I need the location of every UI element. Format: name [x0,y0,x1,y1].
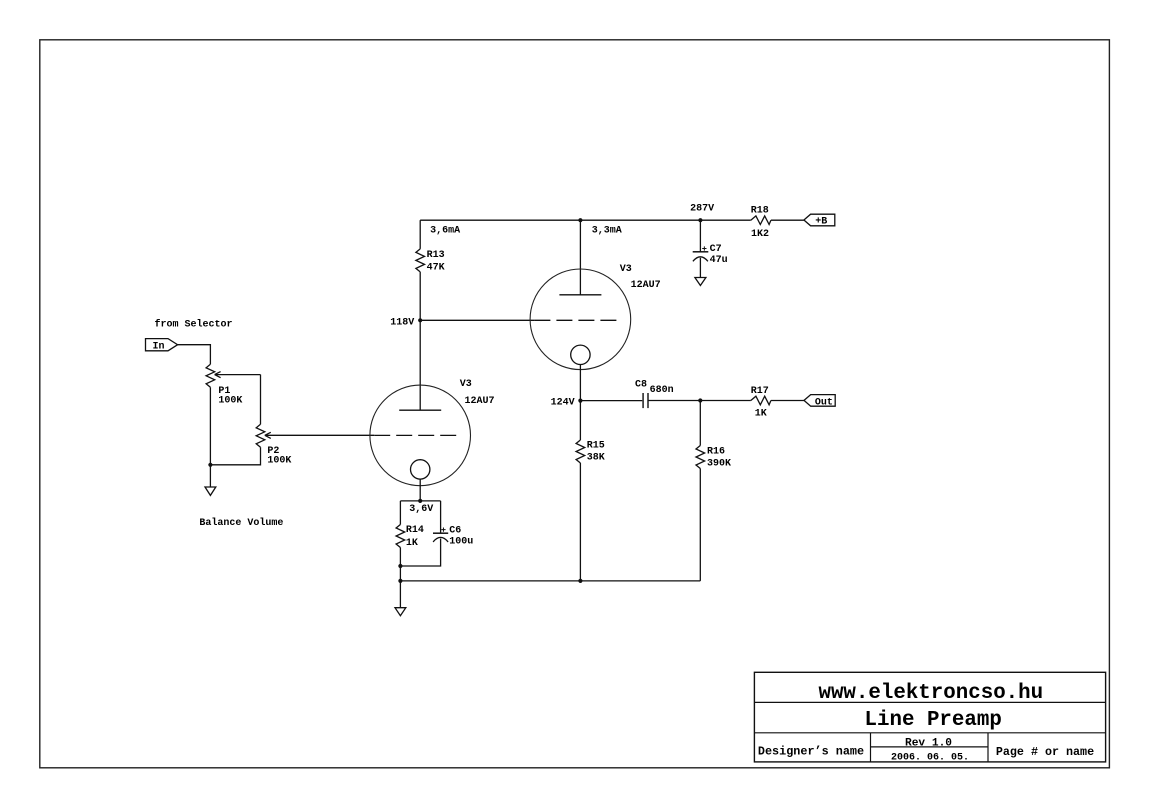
svg-text:12AU7: 12AU7 [465,396,495,407]
wire V3a cathode lead [419,479,421,501]
title block column line 1 [870,733,872,762]
wire junction to ground [209,465,211,487]
svg-text:Page # or name: Page # or name [996,745,1094,759]
node R14-C6 bottom [398,564,402,568]
svg-text:2006. 06. 05.: 2006. 06. 05. [891,752,969,763]
node bottom rail left [398,579,402,583]
svg-text:100u: 100u [449,537,473,548]
node 124V [578,399,582,403]
wire 118V to tube V3b grid [420,319,534,321]
svg-text:680n: 680n [650,385,674,396]
svg-text:287V: 287V [690,204,714,215]
tube V3b cathode [571,345,590,364]
wire R18 to +B [771,219,804,221]
svg-text:12AU7: 12AU7 [631,280,661,291]
svg-text:www.elektroncso.hu: www.elektroncso.hu [818,682,1043,705]
wire In to P1 [178,345,211,365]
svg-text:124V: 124V [551,398,575,409]
svg-text:1K: 1K [755,409,767,420]
capacitor C7 [693,244,728,266]
svg-text:C8: C8 [635,379,647,390]
wire to C6 top [440,501,442,533]
svg-text:1K2: 1K2 [751,229,769,240]
resistor R17 [751,386,771,420]
connector In [146,339,178,353]
wire C7 to ground [699,258,701,278]
svg-text:Out: Out [815,397,833,408]
svg-text:47K: 47K [427,263,445,274]
wire to R14 top [399,501,401,525]
title block divider 1 [754,701,1105,703]
svg-text:38K: 38K [587,453,605,464]
tube V3b grid [534,319,616,321]
tube V3a envelope [370,385,471,486]
wire P1 wiper down to P2 [260,375,262,425]
svg-text:390K: 390K [707,459,731,470]
svg-text:Balance Volume: Balance Volume [199,517,283,529]
node out junction [698,398,702,402]
tube V3a grid [374,434,456,436]
wire 124V to C8 [580,400,643,402]
wire rail corner to R13 [419,220,421,249]
ground [205,487,216,495]
svg-text:R15: R15 [587,441,605,452]
ground [395,608,406,616]
resistor R14 [396,525,424,550]
svg-text:C7: C7 [710,244,722,255]
resistor R15 [576,440,605,464]
capacitor C6 [433,526,473,548]
svg-text:100K: 100K [267,456,291,467]
wire bottom rail [400,580,700,582]
svg-text:Designer’s name: Designer’s name [758,745,864,759]
svg-text:Line Preamp: Line Preamp [865,709,1002,732]
svg-text:V3: V3 [620,264,632,275]
node 287V [698,218,702,222]
tube V3b envelope [530,269,631,370]
wire cathode node box top [400,500,440,502]
svg-text:R14: R14 [406,525,424,536]
connector +B [804,214,835,227]
wire out node to R16 [699,401,701,446]
wire R16 to bottom rail [699,469,701,581]
tube V3a plate [399,409,441,411]
wire 118V down to tube V3a plate [419,320,421,410]
svg-text:Rev 1.0: Rev 1.0 [905,738,952,750]
potentiometer P1 [206,364,260,406]
wire P2 bottom to junction [210,447,260,465]
capacitor C8 [635,379,674,408]
svg-text:In: In [153,341,165,352]
node 118V [418,318,422,322]
node bottom rail R15 [578,579,582,583]
tube V3a cathode [411,460,430,479]
title block outer box [754,672,1105,762]
wire down to bottom rail and ground [399,566,401,608]
ground [695,278,706,286]
connector Out [804,395,835,409]
svg-text:V3: V3 [460,379,472,390]
wire rail to V3b plate [579,220,581,295]
title block middle split [871,746,989,748]
svg-text:C6: C6 [449,526,461,537]
svg-text:R18: R18 [751,206,769,217]
svg-text:R13: R13 [427,250,445,261]
svg-text:3,3mA: 3,3mA [592,225,622,236]
resistor R18 [751,206,771,241]
svg-text:3,6V: 3,6V [409,504,433,515]
title block column line 2 [987,733,989,762]
wire P1 bottom to junction [209,387,211,465]
svg-text:47u: 47u [710,255,728,266]
wire R17 to Out [771,400,804,402]
svg-text:100K: 100K [218,395,242,406]
potentiometer P2 [256,424,374,466]
svg-text:3,6mA: 3,6mA [430,225,460,236]
svg-text:118V: 118V [390,317,414,328]
svg-text:+B: +B [815,216,827,227]
wire C8 to node [648,400,751,402]
wire R14 bottom [399,548,401,567]
tube V3b plate [559,294,601,296]
resistor R13 [416,249,445,274]
wire C6 bottom [400,539,440,567]
node P1-P2 junction [208,463,212,467]
wire 287V to C7 [699,220,701,252]
resistor R16 [696,446,731,470]
wire V3b cathode lead [579,365,581,401]
svg-text:from Selector: from Selector [155,319,233,331]
wire 124V to R15 [579,401,581,440]
node cathode V3a [418,499,422,503]
wire R13 to 118V node [419,272,421,320]
title block divider 2 [754,732,1105,734]
wire top rail [420,219,751,221]
node top rail tube V3b [578,218,582,222]
svg-text:1K: 1K [406,538,418,549]
wire R15 to bottom rail [579,463,581,581]
svg-text:R17: R17 [751,386,769,397]
svg-text:R16: R16 [707,446,725,457]
